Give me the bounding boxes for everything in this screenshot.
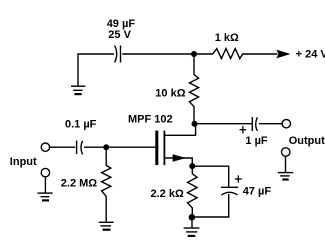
svg-text:Output: Output (289, 135, 325, 147)
svg-text:2.2 MΩ: 2.2 MΩ (61, 177, 98, 189)
svg-text:Input: Input (10, 156, 37, 168)
svg-text:10 kΩ: 10 kΩ (155, 88, 185, 100)
svg-text:2.2 kΩ: 2.2 kΩ (151, 188, 184, 200)
svg-text:1 µF: 1 µF (245, 135, 268, 147)
svg-text:47 µF: 47 µF (243, 185, 272, 197)
svg-text:MPF 102: MPF 102 (128, 113, 173, 125)
svg-text:+ 24 V: + 24 V (296, 48, 325, 60)
svg-text:1 kΩ: 1 kΩ (215, 32, 239, 44)
svg-text:0.1 µF: 0.1 µF (65, 119, 97, 131)
svg-text:25 V: 25 V (108, 29, 131, 41)
